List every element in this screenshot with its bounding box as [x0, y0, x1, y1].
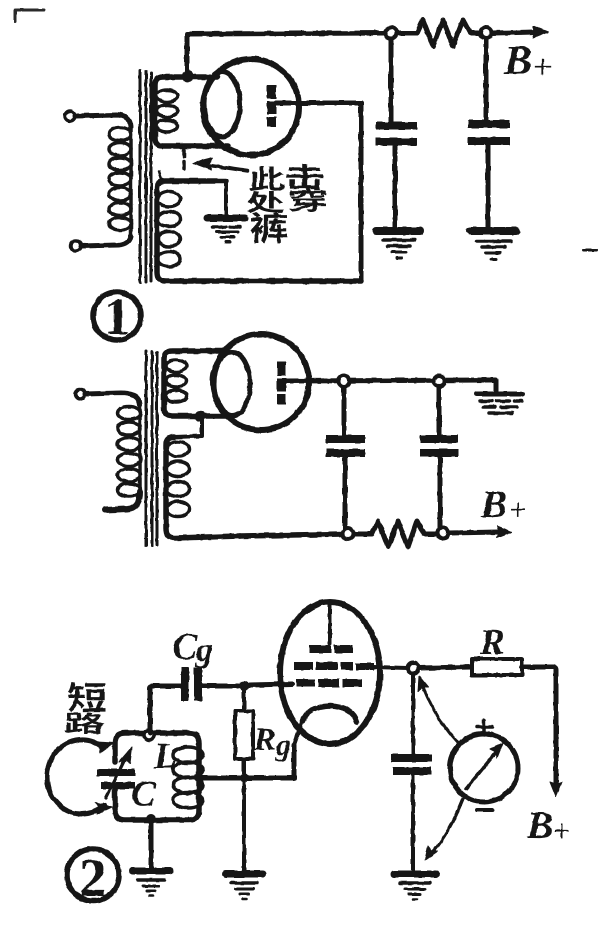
wire L to cathode: [199, 745, 294, 778]
variable capacitor C plates: [97, 769, 135, 789]
wire grid node to Rg: [242, 691, 246, 711]
note text block circuit1: [247, 164, 326, 243]
node JC: [343, 529, 354, 540]
wire top B+ rail: [187, 33, 385, 34]
junction dot tank bottom: [146, 814, 156, 824]
wire vertical from grid coil to rail: [185, 34, 190, 74]
capacitor Cg plates: [181, 667, 202, 701]
grid coil S3 loops: [166, 360, 187, 402]
secondary lower coil S4 outline: [166, 437, 240, 538]
lower coil S4 loops: [167, 442, 190, 517]
wire screen to node: [374, 667, 407, 668]
node J2: [481, 28, 492, 39]
wire arrow to B+ top: [492, 26, 548, 38]
arrow down to B+ bottom: [550, 782, 562, 797]
label circled 1: [93, 292, 141, 340]
wire C5 to ground: [411, 775, 415, 871]
capacitor C4: [420, 435, 458, 457]
wire corner to chassis ground: [490, 380, 496, 392]
wire C1 to ground: [393, 146, 398, 228]
arrow pointer to breakdown: [193, 158, 248, 171]
tube V1 grid: [204, 72, 240, 137]
wire C4 to bottom rail: [438, 457, 443, 533]
input terminal T3: [75, 389, 85, 399]
node JE: [408, 663, 419, 674]
ground G5: [226, 874, 263, 899]
meter plus: [477, 720, 492, 735]
label Rg: [254, 728, 290, 761]
resistor Rg: [235, 711, 253, 759]
label Cg: [173, 634, 212, 668]
capacitor C5: [391, 754, 432, 775]
node JA: [339, 376, 350, 387]
tube V2 grid: [214, 352, 250, 416]
capacitor C2: [468, 120, 510, 145]
wire S3 tap step: [174, 416, 202, 437]
wire plate feedback right: [276, 101, 361, 106]
tube V3 control grid: [296, 679, 362, 687]
node JD: [438, 528, 449, 539]
label B+ bottom: [527, 812, 569, 838]
inductor L loops: [173, 747, 203, 808]
label circled 2: [67, 849, 119, 901]
wire T2 stub: [81, 236, 131, 246]
wire JB to capacitor C4: [437, 387, 442, 436]
wire cathode lead: [294, 719, 303, 745]
tube V3 cathode: [303, 706, 357, 722]
ground G2: [470, 231, 516, 259]
wire feedback vertical: [359, 103, 364, 281]
wire node to R: [419, 667, 472, 668]
junction dot tank top: [144, 730, 154, 740]
label R: [480, 630, 503, 654]
label B+ middle: [481, 491, 525, 517]
label C: [132, 782, 156, 807]
resistor R box: [472, 659, 522, 675]
node JB: [434, 376, 445, 387]
secondary grid coil S3 outline: [164, 351, 227, 416]
tube V1 envelope: [203, 59, 299, 155]
wire T3 stub: [85, 393, 140, 405]
tube V2 envelope: [213, 334, 309, 430]
ground G7: [394, 874, 436, 899]
note text short-circuit: [65, 682, 106, 734]
curved arrow meter to ground: [425, 799, 463, 860]
artifact mark 1: [159, 171, 161, 178]
wire resistor to node J2: [470, 31, 480, 36]
meter M1: [450, 734, 518, 802]
wire arrow to B+ middle: [449, 526, 512, 538]
wire tank bottom to ground: [149, 820, 154, 868]
ground G1: [376, 231, 420, 258]
tube V2 plate: [277, 362, 286, 404]
wire JE to capacitor C5: [411, 674, 415, 755]
ground G3: [207, 218, 245, 242]
input terminal T1 top: [65, 111, 75, 121]
junction blob coil to rail: [182, 70, 194, 82]
wire R to corner: [522, 667, 556, 785]
transformer core X1: [140, 71, 151, 282]
tube V3 envelope: [280, 602, 380, 744]
tube V3 screen grid: [294, 662, 374, 670]
dashed breakdown gap: [182, 150, 186, 168]
resistor R1 (top filter): [417, 20, 470, 46]
curved arrow meter to node: [418, 676, 459, 744]
wire plate rail middle: [286, 380, 490, 381]
variable capacitor arrow: [106, 747, 132, 798]
ground G6: [132, 871, 170, 896]
lower coil S2 loops: [158, 192, 181, 267]
wire P2 bottom stub: [105, 492, 140, 510]
wire J2 down to capacitor C2: [484, 39, 489, 121]
wire T1 stub: [75, 115, 131, 127]
junction dot S3 tap: [195, 411, 206, 422]
wire bottom rail middle: [240, 534, 342, 536]
label B+ top: [504, 46, 551, 74]
tube V3 plate: [309, 645, 353, 653]
artifact dash right: [583, 249, 596, 252]
tube V1 plate: [267, 85, 276, 127]
tank box outline: [115, 733, 199, 820]
grid coil S1 loops: [157, 90, 178, 132]
wire Cg to grid node: [202, 684, 238, 689]
shorted loop with arrows: [47, 740, 114, 814]
wire C3 to bottom rail: [343, 457, 348, 534]
resistor R2: [354, 521, 437, 547]
junction dot grid node: [239, 681, 249, 691]
tube V3 plate stem: [328, 605, 332, 644]
wire ground lead circuit3: [242, 778, 246, 871]
secondary lower coil S2 outline: [157, 181, 361, 281]
primary winding P1: [109, 125, 131, 238]
meter needle: [466, 743, 503, 789]
junction dot cathode rail: [240, 774, 249, 783]
wire J1 down to capacitor C1: [389, 39, 394, 123]
junction dot L tap: [195, 774, 204, 783]
wire ground tap S2: [224, 181, 228, 215]
wire JA to capacitor C3: [342, 387, 347, 436]
wire Rg to cathode rail: [242, 759, 246, 778]
chassis ground G4: [477, 394, 523, 413]
meter minus: [477, 808, 492, 812]
wire grid node to tube: [249, 684, 292, 685]
primary winding P2: [118, 404, 141, 497]
input terminal T2 bottom: [71, 241, 81, 251]
wire C2 to ground: [486, 145, 491, 228]
secondary grid coil S1 outline: [155, 77, 228, 146]
wire tank to Cg: [150, 686, 181, 733]
node J1: [386, 28, 397, 39]
wire rail node1 to resistor: [397, 31, 417, 36]
page artifact top-left corner mark: [15, 10, 44, 21]
capacitor C3: [326, 435, 365, 457]
capacitor C1: [376, 122, 417, 146]
label L: [154, 744, 175, 768]
transformer core X2: [146, 351, 157, 546]
